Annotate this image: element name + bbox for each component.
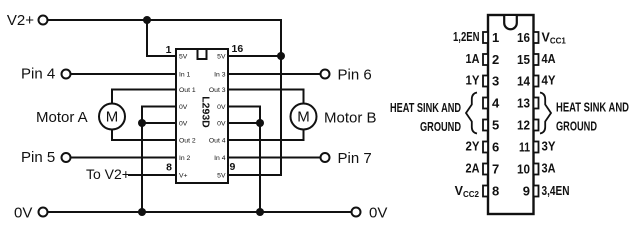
svg-text:GROUND: GROUND [556, 119, 597, 134]
svg-text:3: 3 [492, 74, 499, 89]
brace left pins 4-5 [466, 93, 477, 134]
svg-text:16: 16 [517, 30, 530, 45]
terminal 0V right [352, 208, 361, 217]
svg-text:4A: 4A [542, 52, 556, 66]
brace right pins 13-12 [540, 93, 551, 134]
svg-text:1Y: 1Y [466, 74, 481, 88]
svg-text:0V: 0V [14, 205, 32, 222]
pin stub 13 [534, 98, 539, 109]
motor A circle [99, 104, 125, 130]
svg-text:Motor B: Motor B [324, 110, 377, 127]
terminal 0V left [39, 208, 48, 217]
motor B circle [291, 104, 317, 130]
wire 0V right row2 [228, 122, 260, 124]
wire Pin5 to In2 [71, 157, 177, 159]
wire 0V right vertical [228, 107, 260, 213]
wire V2+ top rail [48, 20, 282, 175]
svg-text:In 1: In 1 [179, 72, 191, 79]
IC notch [198, 50, 207, 59]
IC L293D body [176, 49, 228, 183]
svg-text:Out 2: Out 2 [179, 138, 196, 145]
wire In3 to Pin6 [228, 73, 321, 75]
svg-text:4: 4 [492, 96, 500, 111]
junction dot 0V left mid [138, 119, 146, 127]
svg-text:5V: 5V [217, 173, 226, 180]
svg-text:9: 9 [523, 184, 530, 199]
svg-text:5: 5 [492, 118, 499, 133]
svg-text:Pin 4: Pin 4 [21, 66, 55, 83]
svg-text:14: 14 [517, 74, 531, 89]
svg-text:4Y: 4Y [542, 74, 557, 88]
pin stub 4 [483, 98, 488, 109]
wire 0V left vertical [142, 107, 176, 213]
svg-text:In 2: In 2 [179, 155, 191, 162]
svg-text:0V: 0V [217, 104, 226, 111]
pin stub 15 [534, 54, 539, 65]
terminal V2+ [39, 16, 48, 25]
pin stub 7 [483, 164, 488, 175]
svg-text:15: 15 [517, 52, 530, 67]
svg-text:Pin 5: Pin 5 [21, 149, 55, 166]
svg-text:HEAT SINK AND: HEAT SINK AND [556, 100, 629, 115]
pin stub 11 [534, 142, 539, 153]
wire Motor A bottom to Out2 [112, 130, 176, 141]
svg-text:11: 11 [519, 140, 530, 155]
svg-text:3,4EN: 3,4EN [542, 184, 570, 198]
terminal Pin 7 [321, 153, 330, 162]
svg-text:1A: 1A [466, 52, 480, 66]
DIP16 notch [504, 16, 517, 29]
svg-text:8: 8 [492, 184, 499, 199]
svg-text:1: 1 [492, 30, 499, 45]
pin stub 1 [483, 32, 488, 43]
terminal Pin 4 [62, 70, 71, 79]
svg-text:5V: 5V [217, 54, 226, 61]
svg-text:8: 8 [166, 162, 172, 174]
svg-text:12: 12 [517, 118, 530, 133]
svg-text:10: 10 [517, 162, 530, 177]
svg-text:5V: 5V [179, 54, 188, 61]
svg-text:0V: 0V [217, 121, 226, 128]
pin stub 9 [534, 186, 539, 197]
junction dot rail right [256, 208, 264, 216]
pin stub 6 [483, 142, 488, 153]
svg-text:3A: 3A [542, 162, 556, 176]
svg-text:V+: V+ [179, 173, 188, 180]
pin stub 14 [534, 76, 539, 87]
svg-text:To V2+: To V2+ [86, 166, 130, 182]
svg-text:2A: 2A [466, 162, 480, 176]
junction dot 0V right mid [256, 119, 264, 127]
svg-text:3Y: 3Y [542, 140, 557, 154]
svg-text:Motor A: Motor A [36, 109, 88, 126]
svg-text:Out 4: Out 4 [209, 138, 226, 145]
wire In4 to Pin7 [228, 157, 321, 159]
pin stub 12 [534, 120, 539, 131]
svg-text:GROUND: GROUND [420, 119, 461, 134]
pin stub 16 [534, 32, 539, 43]
svg-text:HEAT SINK AND: HEAT SINK AND [390, 100, 461, 115]
wire Motor B bottom to Out4 [228, 130, 304, 141]
svg-text:9: 9 [230, 161, 236, 173]
wire pin1 5V drop [147, 20, 176, 56]
wire 0V left row2 [142, 122, 176, 124]
svg-text:Pin 7: Pin 7 [338, 150, 372, 167]
svg-text:7: 7 [492, 162, 499, 177]
svg-text:Pin 6: Pin 6 [338, 67, 372, 84]
svg-text:Out 1: Out 1 [179, 87, 196, 94]
svg-text:1,2EN: 1,2EN [453, 30, 480, 44]
wire Pin4 to In1 [71, 73, 177, 75]
svg-text:M: M [297, 109, 310, 126]
svg-text:1: 1 [166, 44, 172, 56]
svg-text:2Y: 2Y [466, 140, 481, 154]
pin stub 2 [483, 54, 488, 65]
terminal Pin 5 [62, 153, 71, 162]
svg-text:0V: 0V [179, 104, 188, 111]
svg-text:2: 2 [492, 52, 499, 67]
pin stub 10 [534, 164, 539, 175]
wire Out1 to Motor A top [112, 90, 176, 104]
pin stub 8 [483, 186, 488, 197]
DIP16 body [488, 15, 534, 214]
svg-text:0V: 0V [179, 121, 188, 128]
svg-text:0V: 0V [369, 205, 387, 222]
junction dot pin16 [277, 52, 285, 60]
pin stub 3 [483, 76, 488, 87]
svg-text:L293D: L293D [200, 96, 212, 128]
wire Out3 to Motor B top [228, 90, 304, 104]
svg-text:V2+: V2+ [7, 12, 34, 29]
junction dot rail left [138, 208, 146, 216]
svg-text:16: 16 [232, 43, 244, 55]
terminal Pin 6 [321, 70, 330, 79]
svg-text:6: 6 [492, 140, 499, 155]
junction dot top [143, 16, 151, 24]
svg-text:M: M [106, 109, 119, 126]
wire pin16 5V [228, 55, 281, 57]
wire To V2+ to V+ [128, 174, 176, 176]
pin stub 5 [483, 120, 488, 131]
wire 0V bottom rail [48, 211, 351, 213]
svg-text:13: 13 [517, 96, 530, 111]
svg-text:In 3: In 3 [214, 72, 226, 79]
svg-text:In 4: In 4 [214, 155, 226, 162]
svg-text:Out 3: Out 3 [209, 87, 226, 94]
